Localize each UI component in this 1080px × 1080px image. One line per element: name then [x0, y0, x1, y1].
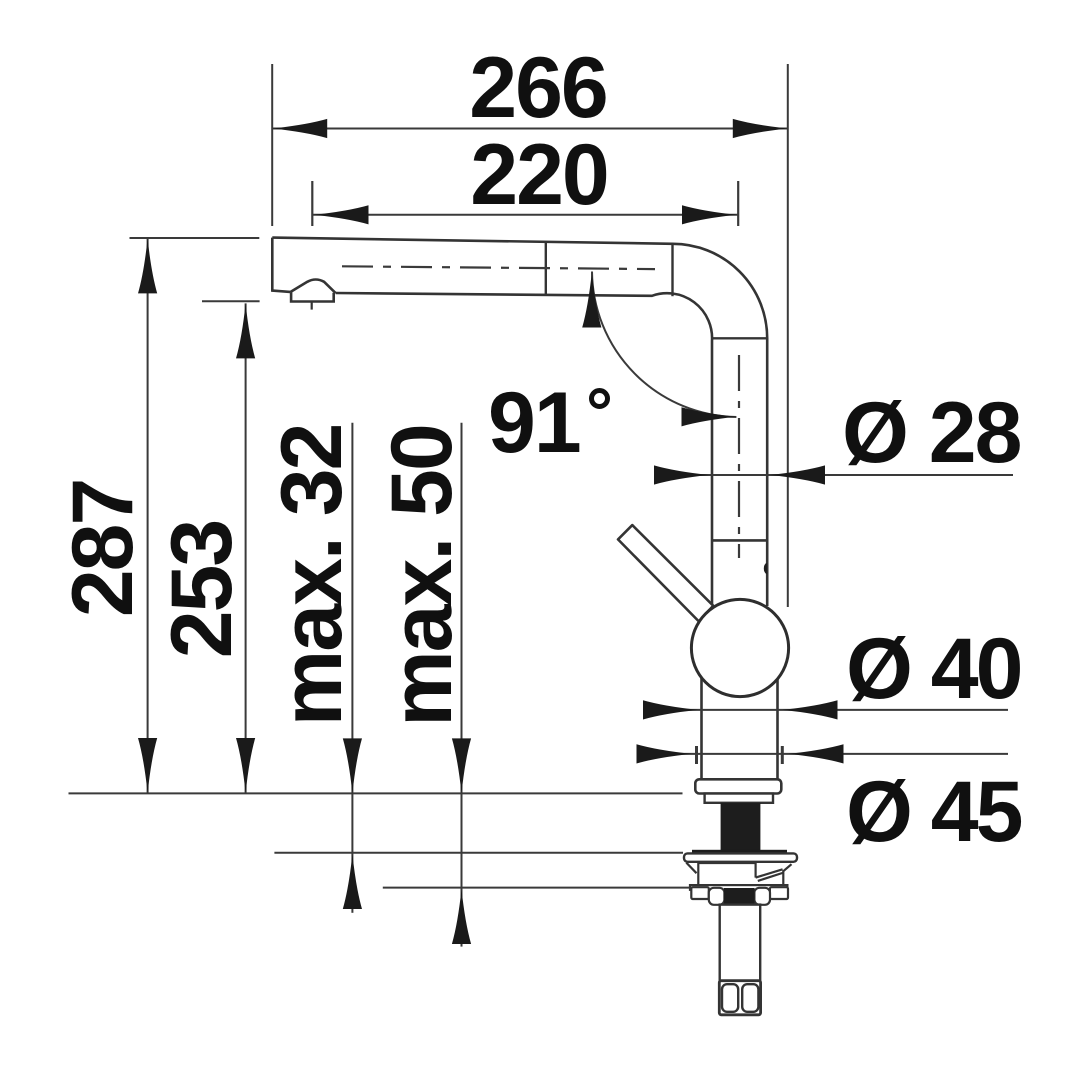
- seal ring (black): [724, 888, 755, 905]
- dimension 287 line: [147, 238, 149, 793]
- svg-text:Ø 40: Ø 40: [846, 621, 1021, 717]
- riser seam mark: [764, 563, 767, 574]
- clamp right hook: [754, 888, 770, 905]
- spout seam line 1: [545, 242, 547, 295]
- clamp bottom plate: [690, 885, 787, 890]
- countertop line: [69, 792, 683, 794]
- riser joint line mid: [712, 539, 767, 542]
- ball joint: [691, 599, 788, 696]
- svg-text:Ø 45: Ø 45: [846, 764, 1022, 860]
- spout body outline: [272, 238, 767, 606]
- threaded shank (black): [721, 803, 761, 851]
- dimension 220 ticks: [312, 181, 738, 226]
- dimension 266 line: [272, 128, 788, 130]
- dimension 253 extension line: [202, 300, 260, 302]
- svg-text:266: 266: [469, 40, 607, 136]
- counter bottom line (max.32): [274, 852, 683, 854]
- supply tube: [720, 905, 761, 981]
- riser joint line top: [712, 337, 767, 339]
- angle 91 arc: [592, 272, 736, 418]
- dimension dia40 line: [643, 709, 1008, 711]
- svg-text:max. 32: max. 32: [264, 425, 360, 727]
- handle lever: [618, 525, 713, 621]
- svg-text:max. 50: max. 50: [374, 425, 470, 727]
- aerator outlet: [290, 280, 335, 310]
- mounting washer plate: [684, 853, 797, 861]
- svg-text:91: 91: [488, 375, 580, 471]
- body cylinder below ball: [702, 662, 778, 779]
- dimension 266 extension lines: [271, 64, 273, 226]
- dimension dia45 line: [638, 753, 1009, 755]
- dimension max50 line: [461, 423, 463, 888]
- hex nut: [719, 981, 760, 1015]
- dimension dia28 line: [657, 474, 1013, 476]
- svg-text:253: 253: [154, 521, 250, 659]
- dimension max32 line: [351, 423, 353, 853]
- dimension 253 line: [245, 303, 247, 793]
- counter bottom line (max.50): [383, 887, 690, 889]
- spout centerline (dash-dot): [342, 266, 655, 269]
- dimension 287 extension line: [130, 237, 260, 239]
- gasket (black strip): [692, 850, 787, 855]
- clamp left hook: [709, 888, 725, 905]
- clamp body: [686, 863, 791, 888]
- svg-text:Ø 28: Ø 28: [842, 385, 1021, 481]
- collar: [705, 794, 773, 803]
- dimension dia45 ticks: [697, 746, 783, 764]
- svg-text:220: 220: [470, 127, 608, 223]
- clamp left tab: [691, 887, 709, 899]
- spout seam line 2 (curve joint): [671, 244, 673, 296]
- clamp right tab: [770, 887, 788, 899]
- base flange: [695, 779, 781, 793]
- riser centerline (dash-dot): [738, 355, 740, 558]
- svg-text:287: 287: [55, 480, 151, 618]
- dimension 220 line: [312, 214, 738, 216]
